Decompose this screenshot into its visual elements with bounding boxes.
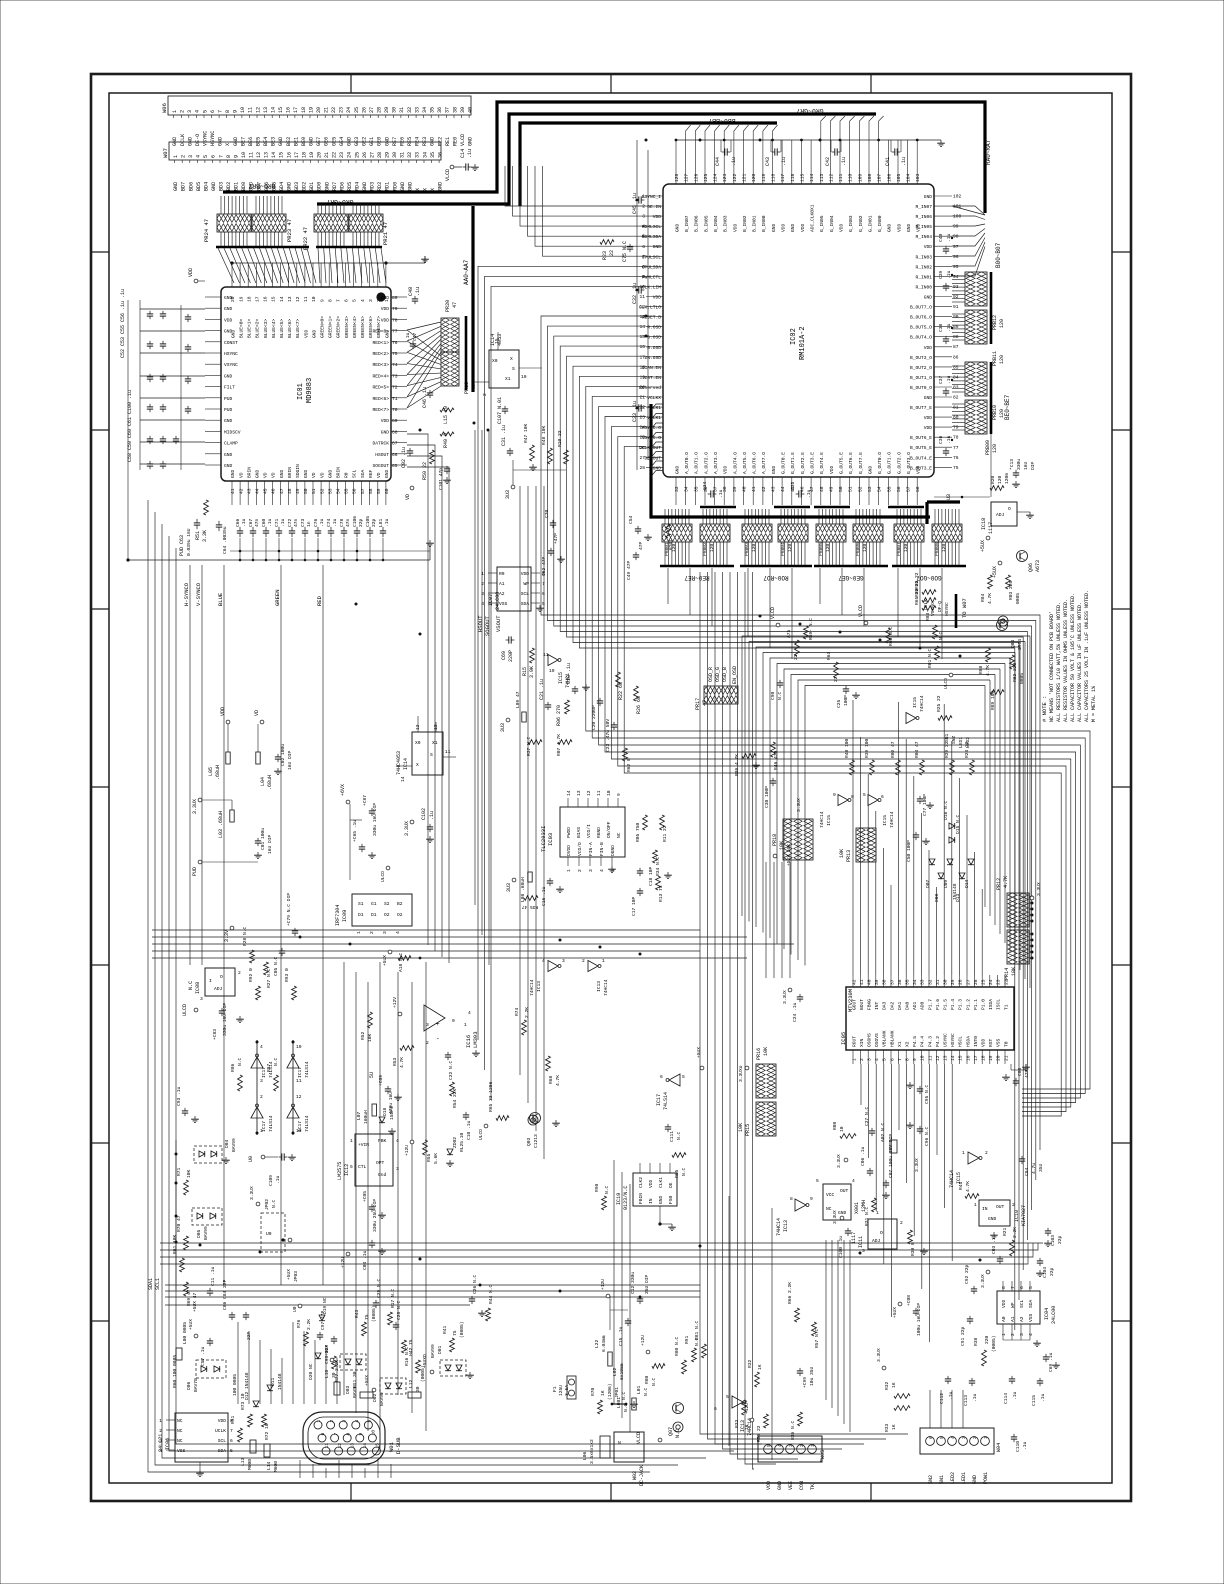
- svg-text:BE0~BE7: BE0~BE7: [1004, 394, 1011, 420]
- svg-text:12: 12: [256, 152, 262, 158]
- svg-text:NC: NC: [177, 1418, 183, 1424]
- svg-text:36: 36: [437, 152, 443, 158]
- svg-text:58: 58: [368, 488, 374, 494]
- svg-text:74HC14: 74HC14: [603, 979, 609, 996]
- svg-text:B00~B07: B00~B07: [995, 242, 1002, 268]
- svg-text:ALL RESISTOR VALUES IN OHMS UN: ALL RESISTOR VALUES IN OHMS UNLESS NOTED…: [1063, 599, 1069, 722]
- svg-text:R28 N.C: R28 N.C: [242, 926, 248, 946]
- svg-text:FBKG: FBKG: [867, 999, 873, 1010]
- svg-text:34: 34: [422, 152, 428, 158]
- svg-text:13: 13: [943, 1055, 949, 1061]
- svg-text:.1u: .1u: [1022, 1441, 1028, 1450]
- svg-text:R07 4.7K: R07 4.7K: [556, 734, 562, 756]
- svg-text:10: 10: [639, 284, 645, 290]
- svg-text:R_IN02: R_IN02: [915, 264, 932, 270]
- svg-text:N.C: N.C: [237, 1057, 243, 1066]
- svg-text:C19 .1u: C19 .1u: [566, 663, 572, 684]
- svg-text:47n: 47n: [345, 518, 351, 527]
- svg-text:C106: C106: [352, 516, 358, 527]
- capacitor C33 .1u: [632, 401, 644, 422]
- svg-text:R25 22: R25 22: [936, 695, 942, 712]
- svg-text:GND: GND: [924, 295, 933, 301]
- svg-text:125: 125: [703, 173, 709, 182]
- svg-text:38: 38: [452, 107, 458, 113]
- svg-text:C06 .1u: C06 .1u: [860, 1146, 866, 1166]
- svg-text:ISDA: ISDA: [988, 999, 994, 1010]
- R70 1K L01 N.C JP01: [590, 1383, 649, 1414]
- svg-text:DA0: DA0: [905, 1001, 911, 1010]
- svg-text:2: 2: [972, 1436, 978, 1439]
- resistor pack PRB01 120: [662, 509, 692, 565]
- svg-text:ALL CAPACITOR VALUES IN uF UNL: ALL CAPACITOR VALUES IN uF UNLESS NOTED.: [1077, 602, 1083, 722]
- svg-text:77: 77: [953, 445, 959, 451]
- svg-text:BLUE<5>: BLUE<5>: [279, 318, 285, 338]
- svg-text:3: 3: [200, 996, 203, 1002]
- svg-text:C104: C104: [1042, 1267, 1048, 1278]
- svg-text:Q06: Q06: [1028, 563, 1034, 572]
- svg-text:BLUE<6>: BLUE<6>: [287, 318, 293, 338]
- svg-text:44: 44: [255, 488, 261, 494]
- svg-text:GND: GND: [988, 1216, 997, 1222]
- svg-text:R15: R15: [522, 667, 528, 676]
- svg-text:UCLK: UCLK: [215, 1428, 226, 1434]
- svg-text:GND: GND: [311, 329, 317, 338]
- svg-text:C95 N.C: C95 N.C: [924, 1084, 930, 1104]
- svg-text:L02: L02: [612, 1367, 618, 1376]
- svg-text:GND: GND: [407, 182, 413, 191]
- svg-text:DVDD: DVDD: [566, 845, 572, 856]
- svg-text:23: 23: [996, 979, 1002, 985]
- svg-text:126: 126: [693, 173, 699, 182]
- 3.3V C79 C05 R28 R27 cluster: [224, 893, 298, 988]
- svg-text:LM393: LM393: [472, 1031, 479, 1048]
- svg-text:C96 N.C: C96 N.C: [924, 1126, 930, 1146]
- svg-text:118: 118: [771, 173, 777, 182]
- svg-text:B_IN02: B_IN02: [742, 215, 748, 232]
- svg-text:R11 22: R11 22: [662, 825, 668, 842]
- svg-text:C105: C105: [365, 516, 371, 527]
- svg-text:47: 47: [279, 488, 285, 494]
- svg-text:RA0~RA7: RA0~RA7: [985, 139, 992, 165]
- svg-text:C110: C110: [1015, 1441, 1021, 1452]
- svg-text:.1u: .1u: [718, 489, 724, 498]
- svg-text:74LS14: 74LS14: [304, 1115, 310, 1132]
- svg-text:GND: GND: [278, 137, 284, 146]
- svg-text:JP01: JP01: [614, 1387, 620, 1398]
- svg-text:4: 4: [642, 224, 645, 230]
- resistor pack PRB08 120: [932, 509, 962, 565]
- svg-text:R45: R45: [958, 1181, 964, 1190]
- svg-text:5: 5: [682, 1074, 685, 1080]
- svg-text:22p: 22p: [1057, 1235, 1063, 1244]
- svg-text:+12U: +12U: [744, 1403, 750, 1414]
- svg-text:GND: GND: [303, 469, 309, 478]
- svg-text:JP03: JP03: [293, 1271, 299, 1282]
- svg-text:C01 100u: C01 100u: [260, 828, 266, 850]
- svg-text:20: 20: [996, 1055, 1002, 1061]
- svg-text:1K: 1K: [891, 1382, 897, 1388]
- svg-text:R_IN04: R_IN04: [915, 234, 932, 240]
- svg-text:-: -: [436, 1035, 440, 1042]
- svg-text:74HC14: 74HC14: [949, 1170, 955, 1188]
- svg-text:FILT: FILT: [224, 385, 235, 391]
- svg-text:VSS: VSS: [177, 1448, 186, 1454]
- inductor L15 10: [440, 406, 454, 424]
- capacitor C48 .1u: [408, 287, 421, 304]
- svg-text:7: 7: [897, 1058, 903, 1061]
- svg-text:FIN-A: FIN-A: [588, 842, 594, 856]
- svg-text:C86 C84 22P: C86 C84 22P: [222, 1279, 228, 1310]
- svg-text:R17 N.C: R17 N.C: [390, 1288, 396, 1308]
- svg-text:C44: C44: [715, 157, 721, 166]
- bus bars under PR packs + fan to IC01: [216, 247, 386, 283]
- caps C40 C39 C38 C37 C36 right of IC02: [938, 233, 953, 456]
- svg-text:1: 1: [350, 1138, 353, 1144]
- svg-text:D01: D01: [437, 1345, 443, 1354]
- svg-text:AD0: AD0: [920, 1001, 926, 1010]
- svg-text:PUD: PUD: [224, 396, 233, 402]
- Q07 + IC13 + R59 R36 C99 cluster: [636, 1282, 820, 1444]
- svg-text:25: 25: [639, 435, 645, 441]
- svg-text:BD7: BD7: [181, 182, 187, 191]
- svg-text:49: 49: [295, 488, 301, 494]
- svg-text:GREEN<2>: GREEN<2>: [336, 316, 342, 338]
- svg-text:R33: R33: [884, 1423, 890, 1432]
- svg-text:37: 37: [445, 107, 451, 113]
- svg-text:A_OUT2.O: A_OUT2.O: [703, 452, 709, 474]
- svg-text:4.7K: 4.7K: [555, 1075, 561, 1086]
- C95 C96 N.C caps: [906, 1082, 930, 1146]
- IC16 LM393 comparator: [360, 997, 480, 1140]
- svg-text:FS0: FS0: [668, 1195, 674, 1204]
- svg-text:RED<3>: RED<3>: [372, 362, 389, 368]
- page border frame: [91, 74, 1131, 1501]
- svg-text:BAV70: BAV70: [193, 1378, 199, 1392]
- svg-text:R70 47: R70 47: [176, 1215, 182, 1232]
- svg-text:112: 112: [828, 173, 834, 182]
- svg-text:13: 13: [349, 1443, 355, 1449]
- svg-text:P4.5: P4.5: [912, 1036, 918, 1047]
- svg-text:11: 11: [596, 790, 602, 796]
- svg-text:T0: T0: [1003, 1041, 1009, 1047]
- svg-text:C93 .1u: C93 .1u: [176, 1086, 182, 1106]
- svg-text:R89 100: R89 100: [990, 690, 996, 710]
- svg-text:10: 10: [839, 1126, 845, 1132]
- svg-text:1n: 1n: [306, 521, 312, 527]
- svg-text:EN.OSD: EN.OSD: [644, 355, 661, 361]
- svg-text:39: 39: [874, 979, 880, 985]
- svg-text:31: 31: [935, 979, 941, 985]
- capacitor C46 .1u: [422, 387, 433, 408]
- svg-text:R91: R91: [230, 1415, 236, 1424]
- svg-text:GND: GND: [924, 395, 933, 401]
- svg-text:50: 50: [303, 488, 309, 494]
- svg-text:VCLKX: VCLKX: [647, 395, 661, 401]
- svg-text:74LS14: 74LS14: [663, 1092, 669, 1110]
- svg-text:3.3UX: 3.3UX: [796, 798, 802, 812]
- svg-text:3U3: 3U3: [505, 490, 511, 499]
- svg-text:R46 470: R46 470: [773, 750, 779, 770]
- svg-text:74HC14: 74HC14: [889, 811, 895, 828]
- svg-text:0805: 0805: [1015, 593, 1021, 604]
- svg-text:G_OUT2.E: G_OUT2.E: [800, 452, 806, 474]
- svg-text:G_OUT5.E: G_OUT5.E: [838, 452, 844, 474]
- svg-text:3: 3: [382, 931, 388, 934]
- svg-text:GND: GND: [279, 469, 285, 478]
- svg-text:R69 47: R69 47: [186, 1289, 192, 1306]
- svg-text:R20: R20: [990, 475, 996, 484]
- wire bundle from IC02 upper-left pins up to connectors: [478, 166, 646, 1100]
- svg-text:BD4: BD4: [203, 182, 209, 191]
- svg-text:G_OUT3.O: G_OUT3.O: [906, 452, 912, 474]
- svg-text:79: 79: [392, 306, 398, 312]
- svg-text:C1213: C1213: [533, 1134, 539, 1148]
- svg-text:3.5x6x1x2: 3.5x6x1x2: [589, 1439, 595, 1464]
- svg-text:C69 .1u: C69 .1u: [1048, 1352, 1054, 1372]
- svg-text:C16 .1u: C16 .1u: [541, 886, 547, 906]
- svg-text:17: 17: [293, 107, 299, 113]
- resistor pack PR24 47: [203, 196, 251, 247]
- svg-text:CLK1: CLK1: [658, 1177, 664, 1188]
- svg-text:GND: GND: [255, 469, 261, 478]
- svg-text:22: 22: [609, 250, 615, 256]
- svg-text:GD3: GD3: [294, 182, 300, 191]
- svg-text:R08: R08: [832, 1121, 838, 1130]
- svg-text:GND: GND: [867, 465, 873, 474]
- svg-text:HSYNC: HSYNC: [944, 602, 950, 616]
- svg-text:C107 N.01: C107 N.01: [497, 397, 503, 424]
- svg-text:10: 10: [241, 152, 247, 158]
- resistor pack PR15 10K: [738, 1102, 776, 1136]
- IC18 1117 regulator: [980, 502, 1034, 552]
- svg-text:PR18: PR18: [772, 834, 778, 846]
- svg-text:A2: A2: [499, 591, 505, 597]
- bus bars under IC02 bottom pins: [700, 506, 924, 509]
- svg-text:19: 19: [988, 1055, 994, 1061]
- svg-text:.1u: .1u: [1040, 1393, 1046, 1402]
- svg-text:VDD: VDD: [732, 223, 738, 232]
- bus BR0~BR7: [223, 102, 985, 213]
- svg-text:AA0~AA7: AA0~AA7: [463, 259, 470, 285]
- svg-text:2: 2: [577, 869, 583, 872]
- resistor pack PR22 47: [302, 204, 348, 250]
- svg-text:115: 115: [800, 173, 806, 182]
- svg-text:MIDSCV: MIDSCV: [224, 429, 241, 435]
- svg-text:RED<4>: RED<4>: [372, 373, 389, 379]
- svg-text:GE3: GE3: [354, 137, 360, 146]
- svg-text:3: 3: [588, 869, 594, 872]
- bus bars under PRB packs row + labels: [660, 566, 966, 581]
- svg-text:6: 6: [928, 1436, 934, 1439]
- svg-text:57: 57: [360, 488, 366, 494]
- svg-text:5: 5: [542, 601, 545, 607]
- svg-text:RM101A-2: RM101A-2: [799, 326, 807, 360]
- svg-text:C54: C54: [628, 515, 634, 524]
- svg-text:28: 28: [377, 152, 383, 158]
- svg-text:R76: R76: [296, 1319, 302, 1328]
- svg-text:GND: GND: [790, 223, 796, 232]
- svg-text:97: 97: [953, 244, 959, 250]
- svg-text:SCL: SCL: [352, 469, 358, 478]
- bus BB0~BB7: [520, 117, 777, 206]
- svg-text:C52 C53 C55 C56 .1u .1u: C52 C53 C55 C56 .1u .1u: [120, 289, 126, 358]
- svg-text:RD7: RD7: [332, 182, 338, 191]
- svg-text:VEE: VEE: [788, 1481, 794, 1490]
- resistor pack PRB07 120: [894, 509, 924, 565]
- svg-text:7: 7: [217, 110, 223, 113]
- svg-text:G_IN05: G_IN05: [819, 215, 825, 232]
- svg-text:3: 3: [426, 1022, 429, 1028]
- svg-text:N.C: N.C: [675, 1429, 681, 1438]
- svg-text:1: 1: [159, 1418, 162, 1424]
- svg-text:GND: GND: [438, 182, 444, 191]
- svg-text:HSYNC: HSYNC: [210, 131, 216, 146]
- svg-text:A75: A75: [786, 629, 792, 638]
- svg-text:35: 35: [430, 152, 436, 158]
- svg-text:SN2: SN2: [928, 1475, 934, 1484]
- svg-text:13: 13: [287, 296, 293, 302]
- svg-text:SDA: SDA: [218, 1448, 227, 1454]
- svg-text:# NOTE :: # NOTE :: [1041, 696, 1048, 722]
- svg-text:1: 1: [851, 1058, 857, 1061]
- svg-text:RE4: RE4: [415, 137, 421, 146]
- wire bundle horizontal lower SDA/SCL: [160, 1243, 1043, 1264]
- svg-text:IC10: IC10: [1014, 1210, 1020, 1222]
- circled reference marks: [528, 616, 1008, 1432]
- svg-text:R95: R95: [674, 1169, 680, 1178]
- svg-text:L14: L14: [266, 1461, 272, 1470]
- svg-text:R23: R23: [602, 251, 608, 260]
- svg-text:R71: R71: [176, 1167, 182, 1176]
- Q04 R83 R84 R88 R82 R89 cluster: [978, 561, 1025, 710]
- svg-text:RD5: RD5: [347, 182, 353, 191]
- svg-text:P4.4: P4.4: [920, 1036, 926, 1047]
- svg-text:R59 22: R59 22: [756, 1425, 762, 1442]
- svg-text:C91 22p: C91 22p: [960, 1326, 966, 1346]
- svg-text:.1u: .1u: [972, 1393, 978, 1402]
- svg-text:12: 12: [337, 1443, 343, 1449]
- IC06 24LC21 eeprom: [158, 1413, 233, 1477]
- svg-text:DA2: DA2: [889, 1001, 895, 1010]
- diodes D07 D08 D09 D13 D14 1N4148: [925, 859, 974, 902]
- svg-text:SN1: SN1: [939, 1475, 945, 1484]
- svg-text:19: 19: [309, 152, 315, 158]
- svg-text:VDD: VDD: [381, 418, 390, 424]
- svg-text:N.C: N.C: [271, 1199, 277, 1208]
- IC09 IRF7304 mosfet pair: [335, 894, 412, 934]
- svg-text:SCL: SCL: [218, 1438, 227, 1444]
- svg-text:U0: U0: [292, 1306, 298, 1312]
- svg-text:4: 4: [481, 601, 484, 607]
- svg-text:FBIN: FBIN: [638, 1193, 644, 1204]
- svg-text:R80 N.C: R80 N.C: [674, 1336, 680, 1356]
- svg-text:GND: GND: [309, 137, 315, 146]
- svg-text:GE0: GE0: [377, 137, 383, 146]
- svg-text:R36 N.C: R36 N.C: [790, 1420, 796, 1440]
- svg-text:VDD: VDD: [838, 223, 844, 232]
- svg-text:GND: GND: [430, 137, 436, 146]
- svg-text:11: 11: [248, 107, 254, 113]
- svg-text:35: 35: [905, 979, 911, 985]
- svg-text:30: 30: [392, 107, 398, 113]
- svg-text:4: 4: [396, 1138, 399, 1144]
- svg-text:69: 69: [392, 418, 398, 424]
- svg-text:D02: D02: [372, 1393, 378, 1402]
- svg-text:DCLK: DCLK: [180, 133, 186, 146]
- svg-text:W06: W06: [161, 103, 168, 113]
- svg-text:C35: C35: [790, 481, 796, 490]
- svg-text:+12U: +12U: [600, 1279, 606, 1290]
- svg-text:R60 100 0805: R60 100 0805: [172, 1355, 178, 1388]
- svg-text:6: 6: [320, 1433, 326, 1436]
- svg-text:IC02: IC02: [790, 328, 798, 345]
- svg-text:VDD: VDD: [220, 707, 226, 716]
- IC04 24LC00 eeprom: [960, 1264, 1060, 1372]
- svg-text:R_IN07: R_IN07: [915, 204, 932, 210]
- svg-text:8: 8: [642, 264, 645, 270]
- svg-text:GE4: GE4: [339, 137, 345, 146]
- L10 L11 L12 ferrites: [324, 1369, 421, 1398]
- svg-text:+C09: +C09: [378, 1075, 384, 1086]
- svg-text:74HC14: 74HC14: [747, 1418, 753, 1436]
- svg-text:21: 21: [324, 152, 330, 158]
- svg-text:3.3UX: 3.3UX: [832, 1210, 838, 1224]
- svg-text:VDD: VDD: [981, 1038, 987, 1047]
- svg-text:U0: U0: [266, 1231, 272, 1237]
- svg-text:18: 18: [246, 296, 252, 302]
- svg-text:0.039u 16U: 0.039u 16U: [186, 528, 192, 556]
- svg-text:VSYNC: VSYNC: [224, 362, 238, 368]
- svg-text:7: 7: [1010, 1286, 1016, 1289]
- svg-text:C31 .1u: C31 .1u: [501, 425, 507, 446]
- svg-text:NC: NC: [177, 1438, 183, 1444]
- connector W04: [920, 1428, 1028, 1484]
- C24 .1u + 3.3UX: [782, 988, 803, 1022]
- svg-text:Q04: Q04: [1010, 639, 1016, 648]
- svg-text:IN: IN: [982, 1206, 988, 1212]
- svg-text:D05: D05: [196, 1229, 202, 1238]
- labels HSOUT SOGOUT VSOUT: [477, 615, 502, 636]
- svg-text:74HC4053: 74HC4053: [396, 751, 402, 775]
- svg-text:23: 23: [639, 415, 645, 421]
- svg-text:73: 73: [392, 373, 398, 379]
- svg-text:C18 10P: C18 10P: [648, 866, 654, 886]
- svg-text:110: 110: [848, 173, 854, 182]
- svg-text:1: 1: [962, 1150, 965, 1156]
- svg-text:+5UX 10K: +5UX 10K: [786, 844, 792, 866]
- svg-text:2: 2: [859, 1058, 865, 1061]
- svg-text:2: 2: [159, 1428, 162, 1434]
- svg-text:IC19: IC19: [616, 1193, 622, 1205]
- svg-text:9123/N.C: 9123/N.C: [623, 1186, 629, 1210]
- svg-text:GND: GND: [658, 1195, 664, 1204]
- svg-text:3: 3: [642, 214, 645, 220]
- svg-text:74: 74: [392, 362, 398, 368]
- svg-text:40: 40: [467, 107, 473, 113]
- svg-text:25: 25: [354, 152, 360, 158]
- svg-text:C28 N.C: C28 N.C: [396, 1300, 402, 1320]
- svg-text:1: 1: [983, 1436, 989, 1439]
- svg-text:D15 N.C: D15 N.C: [955, 814, 961, 834]
- svg-text:SN1: SN1: [944, 733, 950, 742]
- svg-text:PR24 47: PR24 47: [203, 219, 210, 242]
- svg-text:BE3: BE3: [271, 137, 277, 146]
- svg-text:SCL1: SCL1: [155, 1278, 161, 1290]
- IC15 74HC14 + C94 + R45 + IC10 KIA7027: [914, 1150, 1044, 1239]
- capacitor C47 .1u: [405, 332, 418, 349]
- svg-text:VDD: VDD: [218, 1418, 227, 1424]
- svg-text:1K: 1K: [600, 1390, 606, 1396]
